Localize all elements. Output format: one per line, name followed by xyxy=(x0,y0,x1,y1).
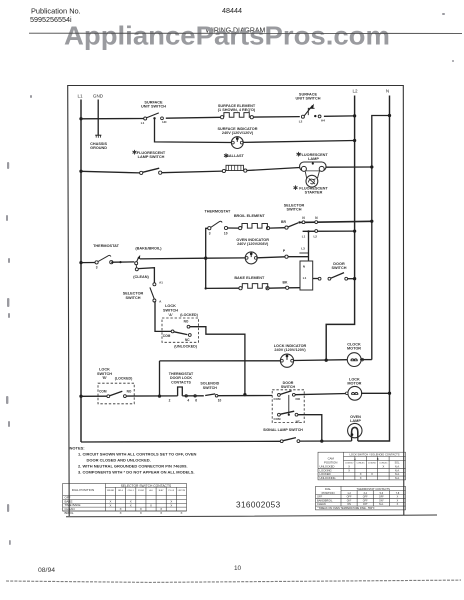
wire bake element to BK terminal xyxy=(269,287,286,289)
svg-text:4: 4 xyxy=(187,399,189,403)
svg-text:X: X xyxy=(348,465,350,469)
svg-text:N.A.: N.A. xyxy=(379,503,384,506)
wire switch 2 to L2 bus xyxy=(324,114,356,117)
svg-text:LOCKED: LOCKED xyxy=(320,472,331,476)
wire fluorescent lamp to neutral branch xyxy=(326,165,374,168)
lock motor M2 xyxy=(346,377,362,400)
svg-text:P: P xyxy=(283,249,286,253)
svg-text:LOCK: LOCK xyxy=(165,304,176,308)
lock switch B block xyxy=(97,367,134,403)
svg-text:L1: L1 xyxy=(141,121,145,125)
svg-text:COM: COM xyxy=(99,390,107,394)
svg-text:L3: L3 xyxy=(301,246,305,250)
svg-text:LAMP SWITCH: LAMP SWITCH xyxy=(138,155,165,159)
svg-text:X: X xyxy=(160,511,162,515)
wire selector row N to neutral branch xyxy=(298,216,373,224)
node L2 label xyxy=(352,89,358,94)
svg-text:2: 2 xyxy=(169,399,171,403)
svg-text:X: X xyxy=(150,503,152,507)
svg-text:LSP-TB: LSP-TB xyxy=(178,490,186,492)
svg-text:BR-4: BR-4 xyxy=(118,490,124,492)
svg-text:N: N xyxy=(315,216,318,220)
svg-text:10: 10 xyxy=(218,399,222,403)
svg-text:240V (120V/120V): 240V (120V/120V) xyxy=(222,131,254,135)
wire selector arm A to lock switch A common xyxy=(155,301,171,331)
svg-text:X: X xyxy=(130,503,132,507)
svg-text:10: 10 xyxy=(234,565,242,572)
svg-text:L2: L2 xyxy=(313,235,317,239)
svg-text:DOOR CLOSED AND UNLOCKED.: DOOR CLOSED AND UNLOCKED. xyxy=(87,457,151,462)
svg-text:THERMOSTAT CONTACTS: THERMOSTAT CONTACTS xyxy=(357,487,391,491)
chassis ground symbol xyxy=(90,135,107,150)
svg-text:X: X xyxy=(348,468,350,472)
svg-text:A: A xyxy=(354,457,356,461)
bake element R3 xyxy=(234,276,269,290)
svg-text:(1 SHOWN, 4 REQ'D): (1 SHOWN, 4 REQ'D) xyxy=(218,108,256,112)
svg-text:ON-L1: ON-L1 xyxy=(128,490,135,492)
svg-text:OFF: OFF xyxy=(363,496,368,499)
oven thermostat T1 xyxy=(93,244,119,269)
svg-text:OFF: OFF xyxy=(317,495,323,499)
signal lamp switch xyxy=(263,428,303,442)
wire bake broil to elements rail xyxy=(140,257,206,260)
wire lock indicator row xyxy=(158,361,280,398)
svg-text:N.A.: N.A. xyxy=(395,477,400,480)
svg-text:OFF: OFF xyxy=(363,499,368,502)
svg-text:THERMOSTAT: THERMOSTAT xyxy=(93,244,119,248)
svg-text:SWITCH: SWITCH xyxy=(126,296,141,300)
terminal BK of selector xyxy=(283,280,300,289)
svg-text:SWITCH: SWITCH xyxy=(203,386,218,390)
svg-text:PL-L3: PL-L3 xyxy=(169,490,175,492)
svg-text:COM-NO: COM-NO xyxy=(345,463,354,465)
svg-text:COM: COM xyxy=(274,417,282,421)
svg-text:3. COMPONENTS WITH * DO NOT A: 3. COMPONENTS WITH * DO NOT APPEAR ON AL… xyxy=(78,470,195,475)
notes text block xyxy=(70,445,197,474)
svg-text:DIAL: DIAL xyxy=(325,487,331,491)
surface indicator lamp DS1 xyxy=(218,127,258,149)
selector switch label right xyxy=(284,203,305,211)
wire thermostat to bake broil contact xyxy=(111,261,134,263)
svg-text:X: X xyxy=(360,472,362,476)
header model number 48444 xyxy=(222,6,242,15)
svg-text:10: 10 xyxy=(224,232,228,236)
schematic border box xyxy=(66,86,437,517)
svg-text:NO: NO xyxy=(127,390,132,394)
svg-text:1. CIRCUIT SHOWN WITH ALL CON: 1. CIRCUIT SHOWN WITH ALL CONTROLS SET T… xyxy=(78,451,196,456)
svg-text:STARTER: STARTER xyxy=(305,191,323,195)
surface element R1 xyxy=(218,104,256,119)
svg-text:BR: BR xyxy=(281,220,286,224)
svg-text:A-6: A-6 xyxy=(149,489,153,492)
svg-text:UNIT SWITCH: UNIT SWITCH xyxy=(141,105,166,109)
svg-text:LAMP: LAMP xyxy=(350,419,361,423)
lock switch A block xyxy=(162,304,199,348)
oven lamp xyxy=(348,415,362,441)
oven indicator lamp DS2 xyxy=(206,238,285,264)
footer page number 10 xyxy=(234,565,242,572)
svg-text:N.A.: N.A. xyxy=(395,469,400,472)
svg-text:A1: A1 xyxy=(159,281,163,285)
surface unit switch S1 xyxy=(141,101,168,125)
wire bottom row L1 return xyxy=(81,440,280,443)
svg-text:BROIL ELEMENT: BROIL ELEMENT xyxy=(234,214,266,218)
wire broil element to BR terminal xyxy=(270,227,285,229)
clean contact of thermostat xyxy=(133,268,149,279)
door switch to oven lamp circuit xyxy=(313,262,357,280)
door switch block xyxy=(272,381,304,424)
svg-text:316002053: 316002053 xyxy=(236,501,281,510)
footer date 08/94 xyxy=(38,567,55,574)
svg-text:N.A.: N.A. xyxy=(395,466,400,469)
wire lock switch B to door lock contacts xyxy=(126,395,177,397)
wire indicator to L2 xyxy=(243,139,356,143)
wire lock switch A NO to lock circuit xyxy=(190,327,247,397)
svg-text:SWITCH: SWITCH xyxy=(97,372,112,376)
svg-text:N.A.: N.A. xyxy=(395,473,400,476)
svg-text:BALLAST: BALLAST xyxy=(226,154,244,158)
svg-text:ON*: ON* xyxy=(347,499,352,502)
svg-text:BAKE/BROIL: BAKE/BROIL xyxy=(317,498,333,502)
svg-text:SWITCH: SWITCH xyxy=(281,385,296,389)
svg-text:THERMOSTAT: THERMOSTAT xyxy=(204,209,230,213)
svg-text:6: 6 xyxy=(195,399,197,403)
wire lock indicator to clock motor xyxy=(294,359,348,362)
wire lock motor to N bus xyxy=(361,392,391,395)
footer scan edge line xyxy=(6,580,461,582)
svg-text:3: 3 xyxy=(209,232,211,236)
svg-text:COM-NO: COM-NO xyxy=(368,463,377,465)
selector switch arm A xyxy=(123,281,164,304)
title WIRING DIAGRAM xyxy=(206,28,266,35)
wire selector row L1-L2 to L2 bus xyxy=(302,229,357,238)
svg-text:SIGNAL LAMP SWITCH: SIGNAL LAMP SWITCH xyxy=(263,428,303,432)
header rule line xyxy=(29,32,462,34)
svg-text:L2: L2 xyxy=(352,89,358,94)
svg-text:(LOCKED): (LOCKED) xyxy=(180,313,198,317)
svg-text:NO: NO xyxy=(296,397,301,401)
wire door switch NC branch xyxy=(298,415,324,443)
wire L2 bus with jog to lock indicator row xyxy=(326,96,354,361)
watermark AppliancePartsPros.com xyxy=(64,20,390,50)
svg-text:240V (120V/208V): 240V (120V/208V) xyxy=(237,242,269,246)
wire neutral branch to indicators and clock xyxy=(372,114,391,360)
svg-text:CLEAN: CLEAN xyxy=(317,502,326,506)
svg-text:* BREAK ON OVEN TEMPERATURE RI: * BREAK ON OVEN TEMPERATURE RISE - 550°F xyxy=(318,507,376,510)
svg-text:240V (120V/120V): 240V (120V/120V) xyxy=(274,348,306,352)
svg-text:COM: COM xyxy=(163,334,171,338)
part number 316002053 xyxy=(236,501,281,510)
svg-text:N: N xyxy=(302,216,305,220)
svg-text:SOL.: SOL. xyxy=(395,462,401,465)
wire L1 bus xyxy=(80,100,82,443)
selector switch contacts table xyxy=(63,484,187,516)
svg-text:X: X xyxy=(371,472,373,476)
svg-text:HC: HC xyxy=(162,120,167,124)
svg-text:SWITCH: SWITCH xyxy=(163,308,178,312)
svg-text:X: X xyxy=(383,465,385,469)
wire switch to surface element xyxy=(166,116,221,119)
svg-text:LOCK: LOCK xyxy=(99,367,110,371)
wire to broil element xyxy=(228,227,239,229)
svg-text:L2: L2 xyxy=(299,120,303,124)
node GND label xyxy=(93,94,104,99)
svg-text:'B': 'B' xyxy=(102,376,107,380)
svg-text:BK: BK xyxy=(283,280,288,284)
surface unit switch S2 xyxy=(296,93,326,124)
wire row3 L1 to fluorescent lamp switch xyxy=(79,170,139,173)
svg-text:DIAL POSITION: DIAL POSITION xyxy=(72,488,94,492)
lock indicator lamp DS3 xyxy=(274,344,307,368)
svg-text:MOTOR: MOTOR xyxy=(347,382,361,386)
svg-text:OFF: OFF xyxy=(347,496,352,499)
clock motor M1 xyxy=(347,342,364,366)
svg-text:UNLOCKING: UNLOCKING xyxy=(320,476,336,480)
lock switch contacts table xyxy=(318,452,406,480)
svg-text:X: X xyxy=(360,476,362,480)
broil element R2 xyxy=(234,214,270,230)
svg-text:X: X xyxy=(110,503,112,507)
header publication number xyxy=(30,7,81,25)
solenoid switch xyxy=(200,382,272,403)
node L1 label xyxy=(77,94,83,99)
svg-text:POSITION: POSITION xyxy=(324,460,337,464)
terminal P of selector xyxy=(283,249,309,258)
svg-text:COM-NC: COM-NC xyxy=(356,463,365,465)
ballast xyxy=(222,153,247,172)
node N label xyxy=(386,89,389,94)
svg-text:LOCK SWITCH / SOLENOID CONTA: LOCK SWITCH / SOLENOID CONTACTS xyxy=(349,453,399,457)
svg-text:OFF: OFF xyxy=(379,496,384,499)
wire signal switch to oven lamp xyxy=(300,440,352,442)
svg-text:(CLEAN): (CLEAN) xyxy=(133,275,149,279)
svg-text:POSITION: POSITION xyxy=(322,491,335,495)
wire L1 to lock switch B xyxy=(79,395,107,398)
svg-text:08/94: 08/94 xyxy=(38,567,55,574)
svg-text:ON*: ON* xyxy=(379,499,384,502)
svg-text:SELECTOR SWITCH CONTACTS: SELECTOR SWITCH CONTACTS xyxy=(121,484,172,488)
svg-text:H4: H4 xyxy=(321,119,325,123)
svg-text:'A': 'A' xyxy=(168,313,173,317)
svg-text:N: N xyxy=(303,264,305,268)
svg-text:CONTACTS: CONTACTS xyxy=(171,380,191,384)
svg-text:N: N xyxy=(386,89,389,94)
wire N bus xyxy=(358,96,390,442)
svg-text:ON*: ON* xyxy=(363,503,368,506)
wire ballast to fluorescent lamp xyxy=(247,168,300,171)
svg-text:UNLOCKED: UNLOCKED xyxy=(320,465,335,469)
fluorescent lamp xyxy=(297,152,329,172)
svg-text:(LOCKED): (LOCKED) xyxy=(115,377,133,381)
svg-text:BROIL: BROIL xyxy=(65,511,74,515)
svg-text:MOTOR: MOTOR xyxy=(347,347,361,351)
svg-text:ON: ON xyxy=(347,503,351,506)
svg-text:L1: L1 xyxy=(303,276,307,280)
svg-text:NC: NC xyxy=(185,338,190,342)
svg-text:48444: 48444 xyxy=(222,6,242,15)
svg-text:COM: COM xyxy=(274,397,282,401)
wire selector vertical link xyxy=(299,231,308,261)
svg-text:COM-NC: COM-NC xyxy=(379,463,388,465)
svg-text:L1: L1 xyxy=(77,94,83,99)
broil thermostat contact T2 xyxy=(204,209,230,235)
wire element to surface unit switch 2 xyxy=(253,116,299,119)
thermostat contacts table xyxy=(316,486,406,510)
svg-text:X: X xyxy=(120,511,122,515)
svg-text:X: X xyxy=(140,511,142,515)
fluorescent starter xyxy=(294,171,329,194)
svg-text:AppliancePartsPros.com: AppliancePartsPros.com xyxy=(64,20,390,50)
svg-text:X: X xyxy=(170,503,172,507)
wire clock motor to neutral branch xyxy=(360,359,372,361)
wire row1 L1 to surface unit switch xyxy=(79,117,144,120)
svg-text:DY-BZ: DY-BZ xyxy=(138,490,145,492)
terminal BR of selector xyxy=(281,220,298,229)
svg-text:LAMP: LAMP xyxy=(308,157,319,161)
svg-text:NOTES:: NOTES: xyxy=(70,445,85,450)
svg-text:B: B xyxy=(377,457,379,461)
svg-text:(UNLOCKED): (UNLOCKED) xyxy=(174,344,198,348)
svg-text:NO: NO xyxy=(184,319,189,323)
svg-text:(BAKE/BROIL): (BAKE/BROIL) xyxy=(135,247,162,251)
wire door switch NO to lock motor xyxy=(295,394,347,395)
svg-text:GND: GND xyxy=(93,94,104,99)
svg-text:A: A xyxy=(159,299,162,303)
wire drop to surface indicator row xyxy=(155,118,232,142)
bake broil contact of thermostat xyxy=(135,247,163,268)
wire switch to ballast xyxy=(162,171,223,173)
wire L1 to oven thermostat xyxy=(79,261,95,264)
svg-text:WR-BR: WR-BR xyxy=(107,490,115,492)
svg-text:LOCKING: LOCKING xyxy=(320,468,332,472)
svg-text:BAKE ELEMENT: BAKE ELEMENT xyxy=(234,276,265,280)
svg-text:SWITCH: SWITCH xyxy=(332,266,347,270)
svg-text:SWITCH: SWITCH xyxy=(287,208,302,212)
svg-text:GROUND: GROUND xyxy=(90,146,107,150)
svg-text:B-BY: B-BY xyxy=(159,490,164,492)
svg-text:2. WITH NEUTRAL GROUNDED CONN: 2. WITH NEUTRAL GROUNDED CONNECTOR P/N 7… xyxy=(78,463,187,468)
wire to bake element xyxy=(206,287,239,289)
svg-text:UNIT SWITCH: UNIT SWITCH xyxy=(296,97,321,101)
svg-text:L1: L1 xyxy=(302,235,306,239)
selector switch body box xyxy=(300,261,313,290)
svg-text:X: X xyxy=(180,511,182,515)
wire GND drop xyxy=(97,100,99,136)
wire clean contact to selector arm xyxy=(138,268,154,283)
fluorescent lamp switch xyxy=(133,150,166,175)
svg-text:3: 3 xyxy=(96,266,98,270)
thermostat door lock contacts xyxy=(169,372,204,403)
wire elements rail xyxy=(204,228,208,289)
